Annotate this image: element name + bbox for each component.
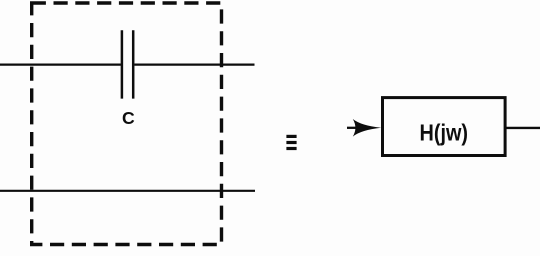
- capacitor C: left plate: [121, 30, 124, 98]
- wire: top-left lead into capacitor: [0, 63, 121, 65]
- svg-text:C: C: [122, 108, 135, 128]
- wire: input arrow shaft: [347, 127, 357, 129]
- capacitor C: right plate: [132, 30, 135, 98]
- equivalence symbol (identical-to): [286, 135, 296, 150]
- svg-text:H(jw): H(jw): [420, 119, 469, 145]
- input arrowhead into H(jw) block: [353, 119, 381, 137]
- wire: bottom lead: [0, 190, 255, 192]
- wire: top-right lead from capacitor: [134, 63, 254, 65]
- wire: output lead of H(jw) block: [506, 127, 540, 129]
- dashed enclosure (equivalent-network boundary): [32, 3, 222, 245]
- block U1: H(jw) transfer-function box: [383, 98, 506, 156]
